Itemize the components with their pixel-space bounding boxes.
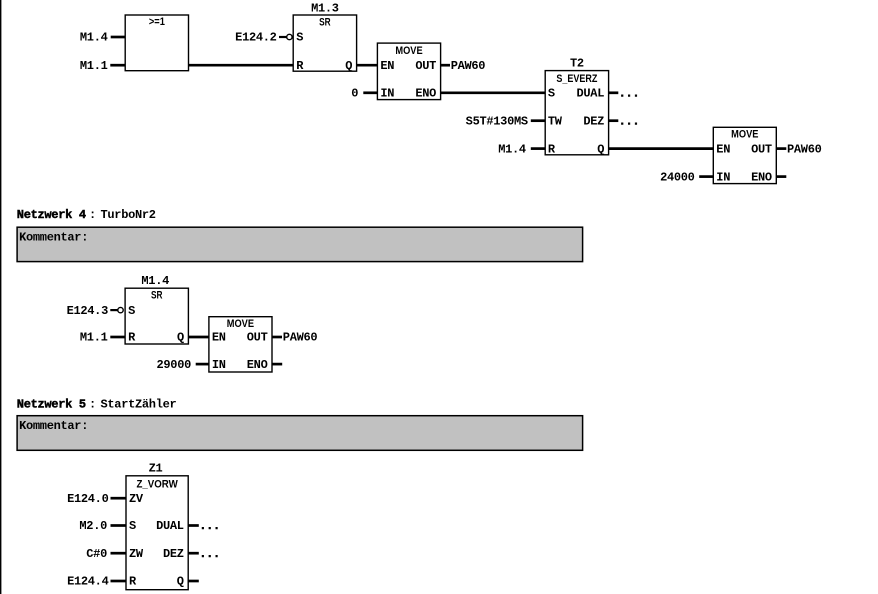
svg-text:S_EVERZ: S_EVERZ (556, 73, 597, 85)
svg-text:EN: EN (716, 142, 730, 156)
wire MOVE 1 ENO to T2 S input (441, 91, 546, 94)
svg-text:24000: 24000 (660, 170, 695, 184)
svg-text:E124.3: E124.3 (67, 304, 109, 318)
svg-text:S5T#130MS: S5T#130MS (466, 114, 528, 128)
svg-text:0: 0 (351, 87, 358, 101)
svg-text:M1.1: M1.1 (80, 331, 108, 345)
svg-text:DEZ: DEZ (163, 547, 184, 561)
svg-text:M1.3: M1.3 (311, 2, 339, 16)
svg-text:PAW60: PAW60 (787, 142, 822, 156)
svg-text:M1.4: M1.4 (498, 142, 526, 156)
wire SR Q to MOVE 3 EN (188, 336, 209, 339)
svg-text:MOVE: MOVE (731, 129, 758, 141)
OR gate >=1 box (125, 15, 188, 71)
wire T2 DEZ stub (609, 119, 619, 122)
MOVE block 1 box (377, 43, 440, 100)
wire E124.2 to negation circle (279, 36, 287, 38)
svg-text:S: S (129, 519, 136, 533)
svg-text:MOVE: MOVE (227, 318, 254, 330)
wire MOVE 3 ENO stub (272, 363, 282, 366)
svg-text:Q: Q (177, 331, 184, 345)
svg-text:MOVE: MOVE (395, 45, 422, 57)
MOVE block 2 box (713, 127, 776, 183)
svg-text:...: ... (199, 519, 220, 533)
wire Z1 Q stub (188, 580, 199, 583)
wire MOVE 2 OUT stub (776, 147, 786, 150)
svg-text:TW: TW (548, 114, 563, 128)
network 4 comment bar (17, 227, 583, 261)
svg-text:...: ... (619, 87, 640, 101)
timer T2 box (545, 71, 608, 155)
svg-text:ENO: ENO (751, 170, 772, 184)
svg-text:M1.1: M1.1 (80, 59, 108, 73)
wire MOVE 2 ENO stub (776, 175, 786, 178)
svg-text:...: ... (199, 547, 220, 561)
wire C#0 to Z1 ZW (111, 552, 127, 555)
svg-text:Netzwerk 5: Netzwerk 5 (17, 397, 86, 411)
svg-text:C#0: C#0 (86, 547, 107, 561)
wire Z1 DUAL stub (188, 524, 199, 527)
svg-text:Kommentar:: Kommentar: (19, 419, 88, 433)
svg-text:DEZ: DEZ (583, 114, 604, 128)
svg-text:DUAL: DUAL (576, 87, 604, 101)
wire E124.4 to Z1 R (111, 580, 127, 583)
svg-text:PAW60: PAW60 (283, 331, 318, 345)
svg-text:SR: SR (319, 17, 331, 29)
wire OR output to SR R input (189, 64, 294, 67)
counter Z1 box (126, 476, 188, 590)
wire MOVE 1 OUT stub (441, 64, 450, 67)
svg-text:M1.4: M1.4 (141, 274, 169, 288)
MOVE block 3 box (209, 317, 272, 372)
svg-text:S: S (296, 31, 303, 45)
svg-text:E124.2: E124.2 (235, 31, 277, 45)
wire T2 DUAL stub (609, 91, 619, 94)
svg-text::: : (89, 208, 96, 222)
negation circle at SR S input (287, 34, 292, 39)
svg-text:Z1: Z1 (149, 462, 163, 476)
svg-text:IN: IN (380, 87, 394, 101)
wire T2 Q to MOVE 2 EN (609, 147, 714, 150)
svg-text:PAW60: PAW60 (451, 59, 486, 73)
wire M1.1 to OR input 2 (110, 64, 125, 67)
wire M1.4 to T2 R (531, 147, 545, 150)
wire M2.0 to Z1 S (111, 524, 127, 527)
svg-text:EN: EN (212, 331, 226, 345)
svg-text:ENO: ENO (247, 358, 268, 372)
svg-text:M2.0: M2.0 (79, 519, 107, 533)
svg-text:T2: T2 (570, 57, 584, 71)
wire M1.4 to OR input 1 (111, 36, 126, 39)
svg-text:S: S (128, 304, 135, 318)
svg-text::: : (89, 397, 96, 411)
SR flip-flop M1.4 box (125, 288, 188, 344)
wire 24000 to MOVE 2 IN (699, 175, 713, 178)
wire M1.1 to SR R (110, 336, 125, 339)
svg-text:R: R (548, 142, 556, 156)
wire E124.3 to negation circle (110, 309, 118, 311)
svg-text:IN: IN (212, 358, 226, 372)
svg-text:StartZähler: StartZähler (101, 397, 177, 411)
svg-text:S: S (548, 87, 555, 101)
svg-text:OUT: OUT (247, 331, 268, 345)
wire Z1 DEZ stub (188, 552, 199, 555)
svg-text:Q: Q (345, 59, 352, 73)
wire 29000 to MOVE 3 IN (196, 363, 209, 366)
svg-text:M1.4: M1.4 (80, 31, 108, 45)
svg-text:SR: SR (151, 290, 163, 302)
svg-text:EN: EN (380, 59, 394, 73)
wire S5T#130MS to T2 TW (531, 119, 545, 122)
svg-text:OUT: OUT (415, 59, 436, 73)
svg-text:29000: 29000 (156, 358, 191, 372)
wire MOVE 3 OUT stub (272, 336, 282, 339)
svg-text:Q: Q (177, 575, 184, 589)
svg-text:Q: Q (597, 142, 604, 156)
svg-text:Kommentar:: Kommentar: (19, 230, 88, 244)
svg-text:IN: IN (716, 170, 730, 184)
SR flip-flop M1.3 box (293, 15, 356, 71)
svg-text:DUAL: DUAL (156, 519, 184, 533)
svg-text:R: R (296, 59, 304, 73)
svg-text:TurboNr2: TurboNr2 (101, 208, 156, 222)
svg-text:ENO: ENO (415, 87, 436, 101)
network 5 comment bar (17, 416, 583, 451)
wire SR Q to MOVE EN (357, 64, 378, 67)
svg-text:E124.4: E124.4 (67, 575, 109, 589)
wire E124.0 to Z1 ZV (111, 497, 127, 500)
svg-text:Netzwerk 4: Netzwerk 4 (17, 208, 86, 222)
svg-text:...: ... (619, 114, 640, 128)
svg-text:R: R (128, 331, 136, 345)
svg-text:>=1: >=1 (149, 16, 165, 28)
wire 0 to MOVE 1 IN (363, 91, 377, 94)
svg-text:Z_VORW: Z_VORW (136, 479, 178, 491)
svg-text:E124.0: E124.0 (67, 492, 109, 506)
left margin rail (0, 0, 1, 594)
svg-text:OUT: OUT (751, 142, 772, 156)
svg-text:R: R (129, 575, 137, 589)
svg-text:ZV: ZV (129, 492, 144, 506)
svg-text:ZW: ZW (129, 547, 144, 561)
negation circle at SR S input (network 4) (118, 307, 123, 312)
